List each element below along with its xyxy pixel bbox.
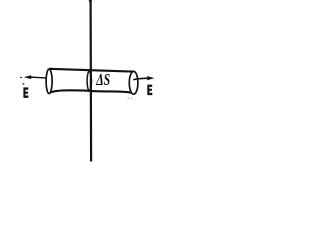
wire left arrow shaft <box>29 76 46 79</box>
wire cylinder top edge <box>49 69 134 72</box>
wire cylinder bottom edge <box>50 90 131 93</box>
wire right arrow shaft <box>133 78 148 80</box>
node right end-cap ellipse <box>129 71 138 94</box>
node left arrow tip speck <box>20 77 22 78</box>
node label E left <box>23 87 28 98</box>
node left arrowhead <box>24 75 31 79</box>
svg-text:ΔS: ΔS <box>95 71 110 90</box>
node top cap of plane line <box>89 0 92 2</box>
node left end-cap ellipse <box>46 69 52 93</box>
wire vertical charged-plane line <box>89 0 92 162</box>
node tick above left E <box>23 83 25 84</box>
node right arrowhead <box>147 76 154 80</box>
node dS cross-section ellipse <box>87 71 91 90</box>
node specks below right cap <box>128 98 129 99</box>
node label E right <box>147 85 152 96</box>
